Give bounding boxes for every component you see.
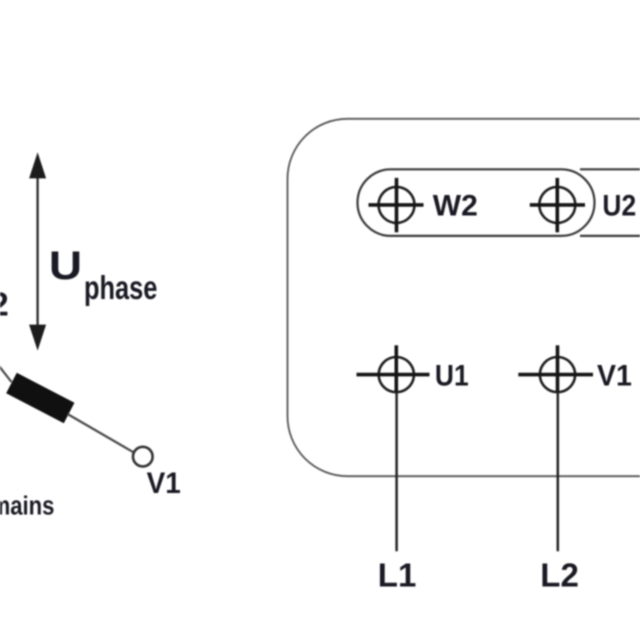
terminal circle V1 (left diagram) [133, 447, 153, 467]
svg-text:U1: U1 [435, 358, 469, 392]
lead L1 wire [395, 392, 398, 551]
svg-text:L1: L1 [378, 557, 417, 594]
second link bar edges (cut at right edge) [580, 168, 640, 170]
svg-text:L2: L2 [540, 557, 579, 594]
svg-text:mains: mains [0, 492, 54, 521]
link bar (pill) joining W2 and U2 [358, 169, 595, 236]
winding (black bar) of phase W [6, 373, 74, 423]
svg-text:U2: U2 [602, 188, 636, 222]
svg-text:phase: phase [84, 270, 157, 307]
terminal box outline (rounded, cropped at right) [288, 119, 640, 476]
lead L2 wire [557, 392, 560, 551]
svg-text:U: U [49, 244, 82, 289]
terminal V1 (in box) [518, 345, 593, 392]
U_phase arrow shaft [36, 172, 38, 330]
U_phase arrow head bottom [29, 325, 46, 351]
svg-text:2: 2 [0, 285, 9, 322]
U_phase arrow head top [29, 152, 46, 178]
svg-text:W2: W2 [433, 189, 478, 222]
svg-text:V1: V1 [597, 360, 632, 393]
terminal U1 [357, 345, 430, 392]
terminal U2 [530, 178, 585, 232]
wire from winding to terminal circle V1 [68, 414, 135, 453]
terminal W2 [369, 178, 424, 232]
wire from mains (left edge) to winding [0, 364, 12, 383]
svg-text:V1: V1 [147, 467, 181, 500]
